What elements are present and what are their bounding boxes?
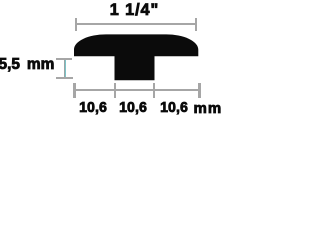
bottom dim tick 1	[73, 83, 76, 98]
bottom dim tick 2	[114, 83, 117, 98]
top dimension line	[76, 23, 196, 26]
5.5mm indicator top serif	[56, 58, 72, 60]
5,5 mm label	[0, 57, 54, 73]
bottom label 10,6 (second)	[119, 100, 147, 115]
5.5mm indicator bottom serif	[56, 77, 73, 79]
5.5mm indicator vertical line (teal part)	[65, 60, 66, 77]
bottom dim tick 3	[153, 83, 156, 98]
bottom dim tick 4	[198, 83, 201, 98]
T-molding profile cross-section	[0, 0, 222, 117]
top dimension label 1 1/4"	[110, 2, 159, 18]
top dimension line right tick	[195, 18, 198, 31]
bottom dimension line	[74, 89, 200, 91]
bottom label 10,6 (first)	[80, 100, 108, 115]
bottom label 10,6 (third)	[160, 100, 188, 115]
top dimension line left tick	[75, 18, 78, 31]
5.5mm indicator vertical line (gray part)	[64, 60, 65, 77]
bottom label mm	[193, 101, 222, 116]
